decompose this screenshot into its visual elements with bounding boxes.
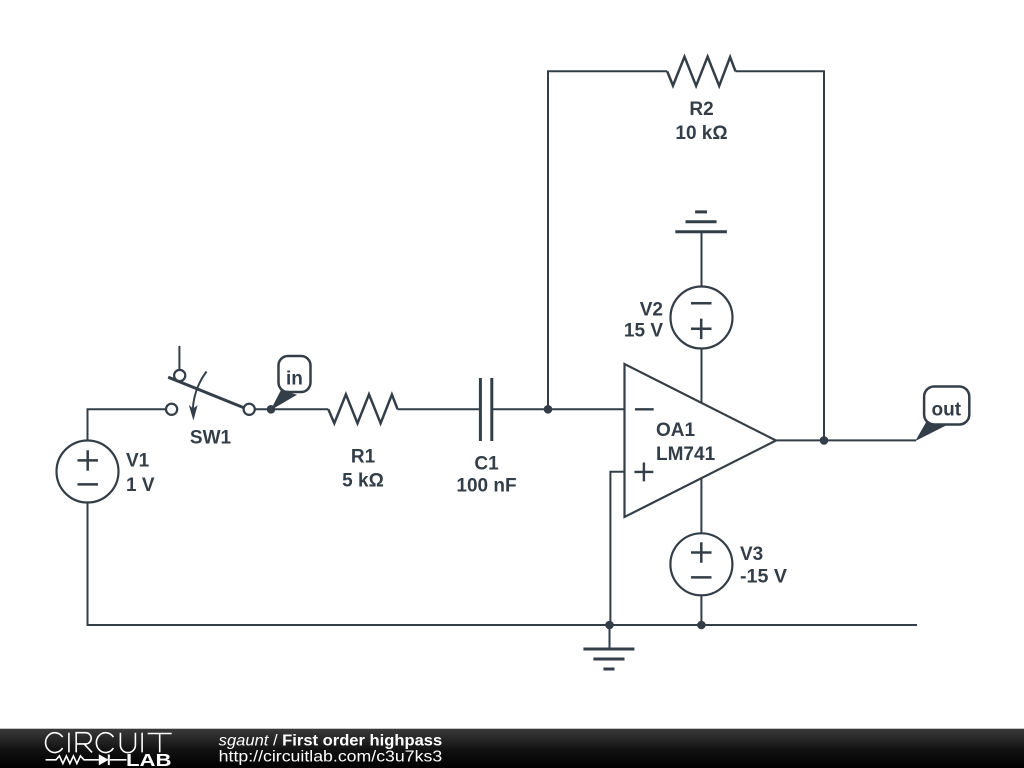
svg-text:out: out <box>932 399 962 420</box>
svg-text:5 kΩ: 5 kΩ <box>342 471 384 492</box>
svg-text:R2: R2 <box>689 99 713 120</box>
svg-text:http://circuitlab.com/c3u7ks3: http://circuitlab.com/c3u7ks3 <box>219 749 443 766</box>
svg-text:V3: V3 <box>740 544 763 565</box>
svg-text:10 kΩ: 10 kΩ <box>675 123 727 144</box>
svg-text:LM741: LM741 <box>656 444 716 465</box>
svg-text:LAB: LAB <box>126 750 172 768</box>
svg-text:V2: V2 <box>640 299 663 320</box>
svg-text:C1: C1 <box>474 453 499 474</box>
svg-text:sgaunt / First order highpass: sgaunt / First order highpass <box>219 732 443 749</box>
svg-text:R1: R1 <box>351 447 376 468</box>
svg-text:15 V: 15 V <box>624 320 663 341</box>
svg-text:SW1: SW1 <box>190 427 232 448</box>
svg-text:1 V: 1 V <box>126 475 155 496</box>
svg-text:in: in <box>286 368 303 389</box>
svg-text:100 nF: 100 nF <box>456 476 516 497</box>
svg-text:-15 V: -15 V <box>740 566 787 587</box>
svg-text:V1: V1 <box>126 450 150 471</box>
svg-text:OA1: OA1 <box>656 420 696 441</box>
